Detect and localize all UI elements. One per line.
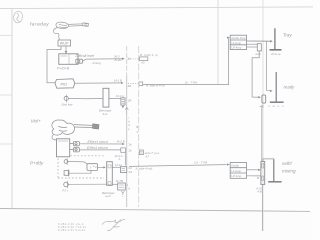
svg-text:Guitar Amp: Guitar Amp (232, 36, 246, 40)
DI box 2 (107, 162, 113, 186)
amp head box (57, 139, 70, 157)
send jack (70, 142, 80, 146)
panel connector W3 (121, 98, 125, 105)
top-right panel vertical (217, 0, 219, 85)
wire selector down to DI 3 (247, 43, 258, 45)
svg-text:2b: 2b (129, 143, 133, 147)
svg-text:Difficult level: Difficult level (76, 54, 95, 58)
chain continuation marks (128, 116, 130, 131)
svg-text:P+ddy: P+ddy (30, 161, 44, 166)
svg-text:P+/D+B: P+/D+B (57, 67, 70, 71)
plug symbol below (260, 105, 264, 109)
svg-text:J4-7B: J4-7B (116, 179, 123, 183)
ready monitor stand (270, 72, 284, 102)
svg-text:2a: 2a (127, 57, 131, 61)
wire return down (124, 152, 126, 165)
self mixing stand (268, 160, 281, 182)
title block text (58, 222, 86, 232)
svg-text:q+b: q+b (106, 194, 111, 198)
amp plug rect (257, 44, 261, 51)
svg-text:ready: ready (284, 85, 296, 90)
connector W5 (121, 167, 127, 173)
inline jack symbol (76, 59, 86, 64)
svg-text:faraday: faraday (30, 22, 49, 28)
arrow into panel A (122, 58, 125, 60)
svg-text:2R: 2R (128, 99, 132, 103)
svg-text:s m o n: s m o n (269, 105, 285, 108)
svg-text:A4: A4 (129, 170, 133, 174)
guitar sketch large (52, 120, 93, 135)
svg-text:timing: timing (93, 61, 102, 65)
auto connector box (139, 150, 143, 155)
svg-text:Guitar: Guitar (231, 164, 239, 168)
wire effect return (80, 149, 121, 151)
svg-text:LP Amp: LP Amp (232, 46, 242, 50)
wire effect send (80, 143, 124, 145)
svg-text:4+b: 4+b (103, 112, 108, 116)
wire sub DI down (262, 184, 264, 231)
edge tick y144 (0, 143, 12, 145)
stage boundary chain line B (138, 46, 140, 207)
svg-text:P.I.+: P.I.+ (63, 188, 69, 192)
stage boundary chain line A (126, 46, 128, 76)
edge tick y95 (0, 94, 12, 96)
guitar headstock (93, 124, 100, 129)
DI box 1 Behringer (103, 88, 109, 107)
wire key to DI box (68, 97, 103, 99)
wire selector to amp plug (247, 46, 258, 48)
signature scribble (102, 219, 125, 230)
svg-text:Tray: Tray (283, 33, 292, 38)
sub DI narrow box (261, 162, 265, 185)
paper crease vertical (262, 0, 264, 231)
DI box 3 right (262, 95, 266, 103)
dotted continuation (128, 58, 139, 60)
svg-text:A, side 4 sub: A, side 4 sub (135, 166, 153, 170)
svg-text:LP Amp: LP Amp (231, 174, 241, 178)
border frame bottom line (0, 209, 310, 212)
svg-text:amp: amp (255, 52, 261, 56)
wire offset level line (86, 58, 125, 60)
wire DI2 out lower (112, 183, 117, 185)
svg-text:J4-1 B: J4-1 B (114, 79, 122, 83)
receiver box (59, 54, 78, 65)
svg-text:J4-2 B: J4-2 B (117, 139, 125, 143)
wire over to mixing stand (263, 159, 274, 162)
svg-text:A-B: A-B (257, 190, 262, 194)
wire PA long (129, 165, 227, 167)
wire WUP to receiver arrow (65, 46, 67, 53)
svg-text:Viol+: Viol+ (31, 119, 42, 124)
pedalboard dashed enclosure (58, 156, 104, 178)
svg-text:4R: 4R (128, 84, 132, 88)
wire amp plug to ready monitor (267, 41, 272, 91)
wire to amp selector riser (143, 39, 229, 85)
svg-text:f: f (90, 166, 91, 170)
svg-text:self!/: self!/ (282, 161, 293, 166)
wire jack C to DI2 (69, 183, 107, 185)
edge tick y35 (0, 34, 12, 36)
wire WUP left down to PID (47, 46, 61, 83)
wire selector to tray speaker (247, 40, 272, 42)
connector return (121, 148, 126, 152)
svg-text:J5-2R: J5-2R (114, 58, 121, 62)
svg-text:2v - 7' PA: 2v - 7' PA (184, 81, 197, 85)
svg-text:Lb Amp: Lb Amp (231, 169, 241, 173)
wire DI to panel (109, 98, 121, 100)
svg-text:A: A (128, 123, 130, 127)
connector box W1 (140, 57, 148, 61)
drum key symbol (64, 95, 68, 103)
monitor tray speaker stand (270, 28, 282, 50)
wire fx to DI2 (98, 166, 105, 168)
return jack (70, 148, 80, 152)
amp selector box top 3 rows (230, 35, 246, 49)
arrow mark below (121, 191, 124, 193)
PID box (55, 79, 75, 88)
wire jack A to fx (68, 161, 87, 164)
svg-text:Effect return: Effect return (87, 146, 108, 150)
svg-text:2b: 2b (129, 149, 133, 153)
svg-text:Disk key: Disk key (62, 103, 73, 107)
jack A (64, 158, 68, 165)
svg-text:PID: PID (61, 81, 68, 86)
box WUP wireless unit (58, 40, 71, 46)
wire PID to amp selector (75, 82, 123, 84)
svg-text:2.0 - 7' PA: 2.0 - 7' PA (193, 160, 207, 164)
svg-text:A2: A2 (141, 61, 145, 65)
page number circle (14, 11, 23, 22)
svg-text:Lb Amp: Lb Amp (232, 41, 242, 45)
chain marks below (125, 107, 128, 109)
wire DI2 out upper (112, 166, 120, 168)
arrow below connector (122, 105, 124, 108)
svg-text:2mm+q: 2mm+q (270, 52, 281, 56)
svg-text:A: A (128, 186, 130, 190)
jack C (64, 181, 69, 188)
border frame top line (0, 7, 313, 9)
connector box W2 (139, 82, 143, 86)
guitar sketch small (56, 22, 89, 28)
wire DI3 down to sub DI (261, 108, 263, 162)
svg-text:A7: A7 (146, 155, 150, 159)
svg-text:R, side of P+B: R, side of P+B (146, 83, 165, 87)
svg-text:mixing: mixing (282, 169, 296, 174)
connector W7 (118, 183, 126, 190)
svg-text:6-284-4-31 3-4+41: 6-284-4-31 3-4+41 (58, 228, 86, 232)
svg-text:A: A (119, 157, 121, 161)
fx pedal box (87, 164, 98, 171)
border frame left vertical (11, 9, 13, 209)
pa selector box bottom 3 rows (230, 163, 246, 179)
guitar cable to wireless (53, 28, 60, 40)
guitar cable to amp head (52, 135, 57, 141)
wire selector B row2 to sub DI (247, 169, 260, 171)
wire jack B (69, 171, 91, 174)
wire selector B row3 to sub DI (247, 175, 261, 177)
svg-text:B, hold 4, pr: B, hold 4, pr (140, 53, 159, 57)
wire amp plug down to DI3 (252, 51, 260, 97)
svg-text:WUP: WUP (60, 42, 69, 46)
jack B (64, 169, 69, 176)
